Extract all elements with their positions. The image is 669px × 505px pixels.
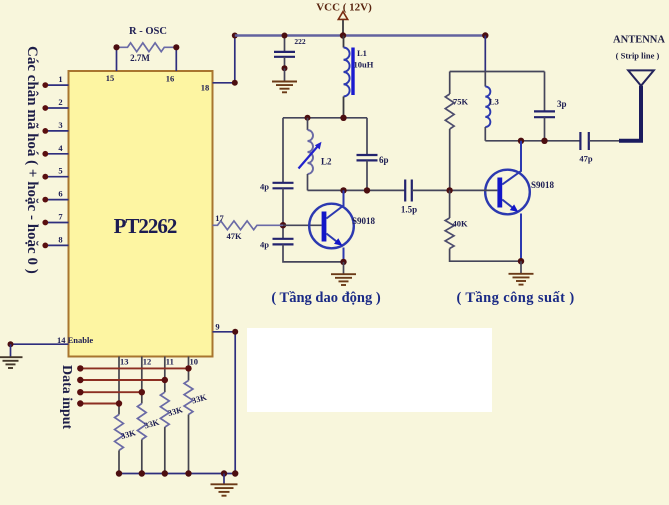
svg-text:6: 6 — [58, 189, 62, 199]
pin 4 wire — [42, 143, 68, 157]
svg-text:47K: 47K — [226, 231, 242, 241]
svg-text:3p: 3p — [557, 99, 567, 109]
capacitor 222 — [274, 33, 295, 72]
svg-text:L1: L1 — [357, 48, 367, 58]
wire tank bottom — [308, 187, 406, 193]
svg-text:17: 17 — [215, 213, 224, 223]
svg-text:12: 12 — [143, 357, 152, 367]
wire tank left upper — [282, 118, 284, 182]
capacitor 6p — [357, 118, 378, 191]
inductor L1 — [344, 36, 355, 118]
resistor 47K — [213, 221, 284, 230]
wire VCC drop right — [482, 32, 488, 71]
svg-text:18: 18 — [201, 83, 210, 93]
svg-text:( Tầng dao động ): ( Tầng dao động ) — [271, 290, 380, 306]
svg-text:13: 13 — [120, 357, 129, 367]
antenna lead wire — [619, 86, 641, 141]
svg-text:5: 5 — [58, 166, 62, 176]
svg-text:Các chân mã hoá ( + hoặc - ho: Các chân mã hoá ( + hoặc - hoặc 0 ) — [24, 46, 40, 274]
pin 8 wire — [42, 234, 68, 248]
svg-text:R - OSC: R - OSC — [129, 26, 167, 37]
data wire 3 — [77, 389, 145, 395]
svg-text:10uH: 10uH — [354, 60, 374, 70]
transistor Q2 S9018 — [446, 141, 529, 261]
svg-text:VCC ( 12V): VCC ( 12V) — [316, 2, 372, 14]
svg-text:4p: 4p — [260, 182, 269, 192]
wire tank top — [283, 115, 367, 121]
pin 11 wire with resistor 33K — [160, 357, 173, 474]
data wire 1 — [77, 365, 192, 371]
svg-text:1: 1 — [58, 74, 62, 84]
svg-text:S9018: S9018 — [352, 216, 376, 226]
pin 10 wire with resistor 33K — [184, 357, 198, 474]
wire tank left middle — [280, 188, 286, 238]
svg-text:14 Enable: 14 Enable — [57, 335, 93, 345]
pin 14 wire — [8, 341, 69, 347]
ground bottom — [211, 474, 238, 496]
svg-text:Data input: Data input — [59, 365, 74, 430]
pin 2 wire — [42, 97, 68, 111]
wire power top — [450, 71, 545, 73]
capacitor 3p — [534, 72, 555, 141]
ground at pin 14 — [0, 344, 23, 368]
svg-text:222: 222 — [294, 37, 306, 46]
VCC power symbol — [338, 12, 347, 39]
svg-text:10: 10 — [190, 357, 199, 367]
wire tank left lower — [283, 244, 344, 262]
svg-text:40K: 40K — [453, 219, 469, 229]
ground under C222 — [272, 68, 297, 92]
pin 18 wire — [201, 33, 238, 93]
svg-text:( Strip line ): ( Strip line ) — [616, 51, 660, 61]
pin 13 wire with resistor 33K — [115, 357, 129, 474]
svg-text:16: 16 — [166, 74, 175, 84]
svg-text:1.5p: 1.5p — [401, 205, 417, 215]
resistor R-OSC 2.7M — [113, 43, 179, 71]
wire VCC rail — [235, 34, 485, 36]
data wire 2 — [77, 377, 168, 383]
svg-text:( Tầng công suất ): ( Tầng công suất ) — [456, 290, 574, 306]
resistor 40K — [445, 190, 521, 261]
pin 3 wire — [42, 120, 68, 134]
pin 9 wire — [213, 322, 239, 474]
wire power mid — [485, 138, 580, 144]
svg-text:4p: 4p — [260, 240, 269, 250]
svg-text:3: 3 — [58, 120, 62, 130]
svg-text:8: 8 — [58, 234, 62, 244]
svg-text:11: 11 — [166, 357, 174, 367]
inductor L3 — [485, 72, 490, 141]
svg-text:PT2262: PT2262 — [114, 214, 177, 238]
svg-text:L3: L3 — [489, 97, 499, 107]
capacitor 1.5p — [405, 180, 449, 202]
ground under Q2 — [509, 258, 534, 285]
data wire 4 — [77, 400, 122, 406]
svg-text:S9018: S9018 — [531, 180, 555, 190]
capacitor 4p upper — [273, 183, 294, 189]
capacitor 47p — [580, 132, 619, 150]
svg-text:47p: 47p — [579, 154, 593, 164]
resistor 75K — [445, 72, 454, 191]
pin 12 wire with resistor 33K — [137, 357, 151, 474]
svg-text:2: 2 — [58, 97, 62, 107]
pin 1 wire — [42, 74, 68, 88]
pin 6 wire — [42, 189, 68, 203]
svg-text:6p: 6p — [379, 155, 389, 165]
svg-text:L2: L2 — [321, 157, 332, 167]
svg-text:15: 15 — [106, 73, 115, 83]
wire bottom rail — [116, 470, 239, 476]
ground under Q1 — [331, 259, 356, 285]
svg-text:9: 9 — [215, 322, 219, 332]
capacitor 4p lower — [273, 239, 294, 245]
IC U1 PT2262 body — [69, 71, 213, 357]
svg-text:ANTENNA: ANTENNA — [613, 35, 665, 46]
inductor L2 variable — [299, 118, 322, 191]
pin 5 wire — [42, 166, 68, 180]
pin 7 wire — [42, 212, 68, 226]
svg-text:75K: 75K — [453, 97, 469, 107]
svg-text:2.7M: 2.7M — [130, 53, 150, 63]
antenna symbol — [628, 70, 654, 85]
transistor Q1 S9018 — [283, 190, 354, 262]
